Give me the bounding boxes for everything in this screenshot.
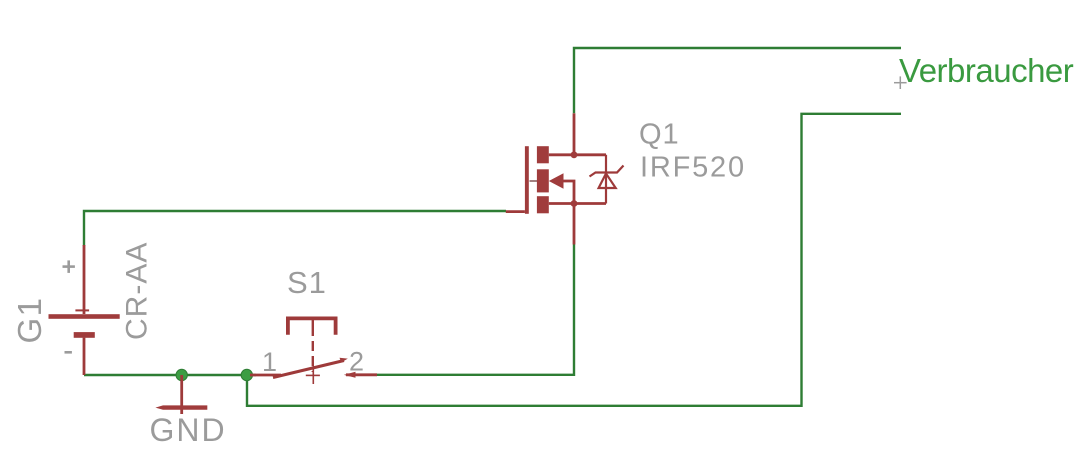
svg-text:Verbraucher: Verbraucher bbox=[899, 52, 1074, 89]
body diode bbox=[590, 155, 624, 204]
source channel bar bbox=[537, 196, 549, 213]
body channel bar bbox=[537, 169, 549, 192]
svg-text:S1: S1 bbox=[287, 265, 327, 300]
substrate arrow bbox=[549, 173, 564, 189]
switch S1 symbol bbox=[250, 318, 377, 384]
battery plus sign bbox=[63, 260, 75, 273]
switch pivot cross bbox=[306, 366, 320, 384]
substrate connection bbox=[564, 181, 575, 204]
source junction dot bbox=[571, 200, 578, 207]
ground symbol GND bbox=[155, 375, 207, 414]
switch pin 2 lead bbox=[346, 373, 377, 376]
net label cross verbraucher bbox=[894, 76, 907, 89]
junction dot at GND bbox=[176, 369, 187, 380]
source lead bbox=[549, 202, 606, 205]
mosfet origin cross bbox=[530, 180, 539, 182]
wire: switch pin2 to mosfet source net bbox=[377, 245, 574, 375]
svg-text:G1: G1 bbox=[11, 296, 48, 343]
wire: battery plus to gate net bbox=[84, 211, 506, 246]
drain lead bbox=[549, 153, 606, 156]
switch pin 1 lead bbox=[250, 374, 281, 377]
wire: gnd rail to verbraucher return net bbox=[247, 114, 901, 406]
svg-text:1: 1 bbox=[262, 347, 277, 377]
drain channel bar bbox=[537, 146, 549, 163]
junction dot at rail drop bbox=[241, 369, 252, 380]
svg-text:Q1: Q1 bbox=[639, 119, 680, 151]
wire: drain to verbraucher net bbox=[574, 48, 901, 113]
source pin down bbox=[573, 204, 576, 245]
switch arm bbox=[273, 361, 344, 378]
gate bar bbox=[525, 146, 529, 214]
gate lead bbox=[506, 210, 525, 213]
wire: battery minus to switch pin1 net bbox=[84, 374, 256, 376]
battery G1 symbol bbox=[49, 245, 120, 375]
switch actuator bracket bbox=[288, 318, 336, 334]
svg-text:GND: GND bbox=[150, 412, 227, 448]
svg-text:2: 2 bbox=[349, 347, 364, 377]
battery minus sign bbox=[65, 351, 72, 354]
svg-text:IRF520: IRF520 bbox=[640, 152, 746, 184]
svg-text:CR-AA: CR-AA bbox=[120, 242, 153, 340]
drain pin up bbox=[573, 113, 576, 155]
drain junction dot bbox=[571, 151, 578, 158]
mosfet Q1 symbol bbox=[506, 113, 624, 244]
switch actuator dashed link bbox=[312, 318, 314, 336]
